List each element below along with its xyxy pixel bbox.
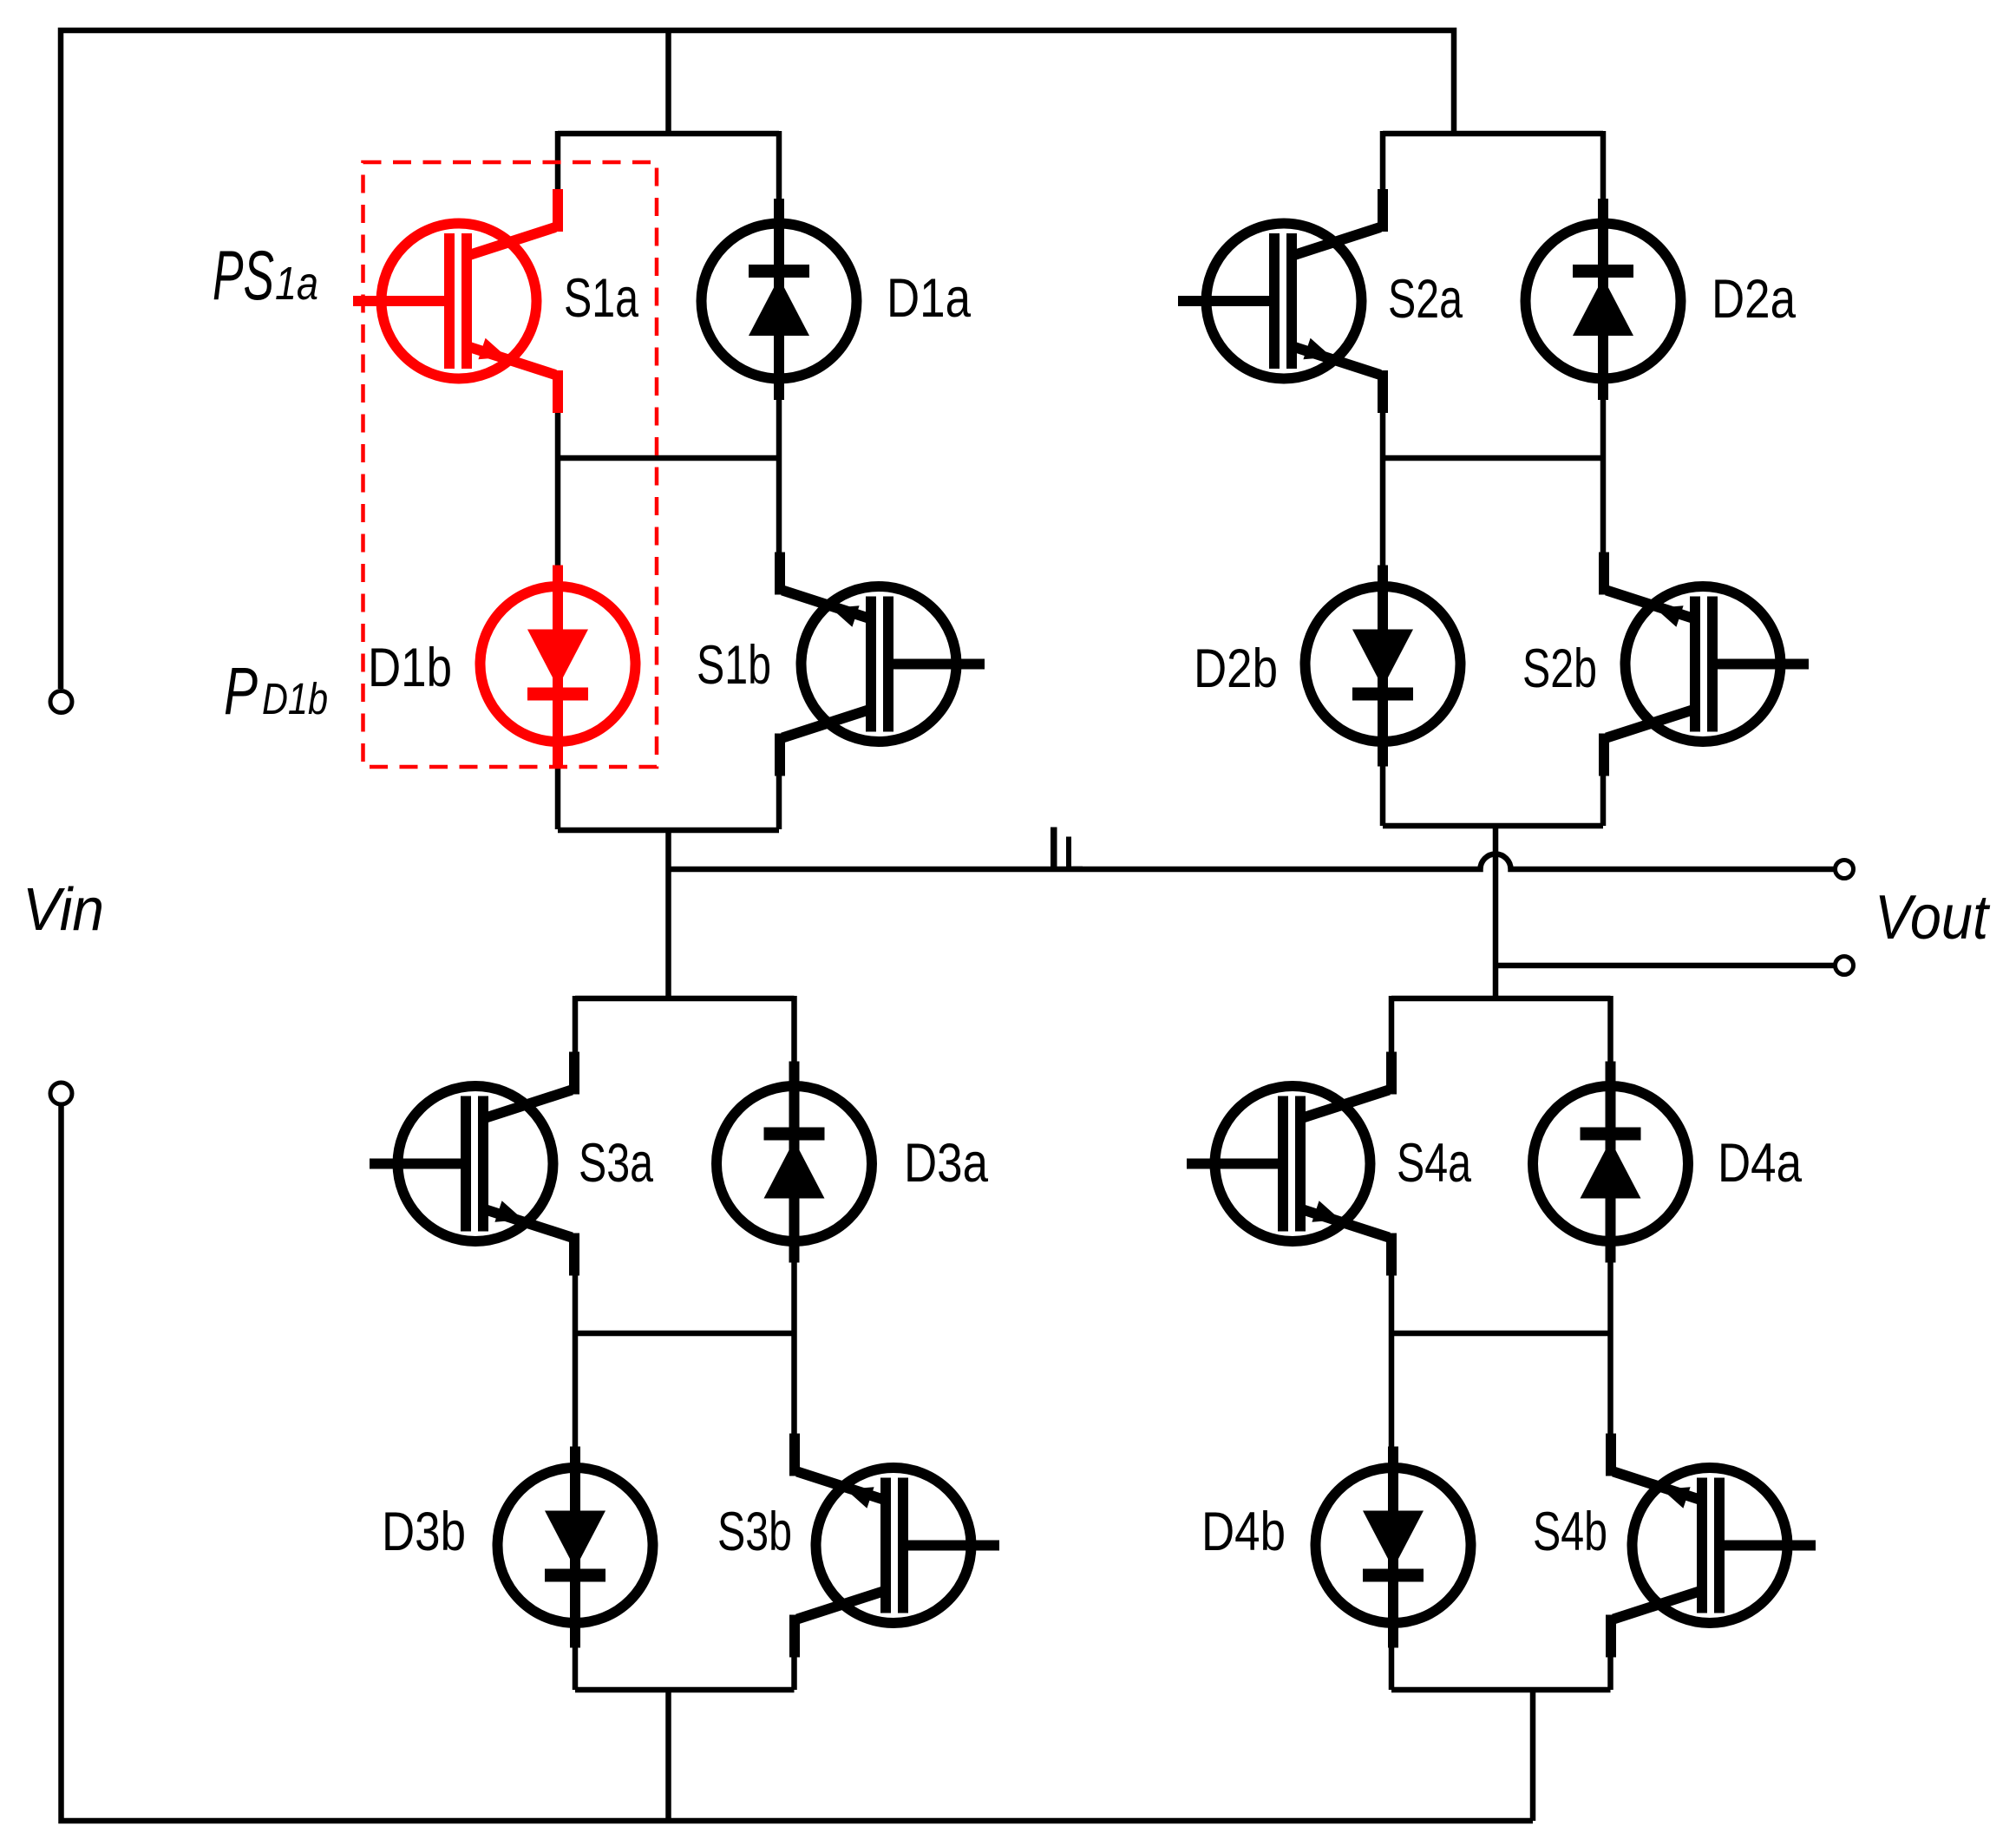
svg-text:S3a: S3a	[579, 1133, 654, 1194]
wire cell2 left branch upper segment	[1380, 131, 1386, 193]
wire cell2 right branch upper segment	[1600, 131, 1607, 555]
svg-text:S4b: S4b	[1533, 1502, 1607, 1562]
diode D3a	[717, 1062, 872, 1263]
wire cell4 bottom drop to bus	[1530, 1690, 1536, 1821]
wire cell1 right branch upper segment	[776, 131, 782, 555]
diode D4a	[1533, 1062, 1688, 1263]
svg-text:S4a: S4a	[1397, 1133, 1472, 1194]
svg-text:D3b: D3b	[382, 1502, 466, 1562]
transistor S4a (IGBT)	[1187, 1052, 1391, 1276]
node: cell 4 top edge	[1391, 996, 1611, 1002]
svg-text:D4a: D4a	[1718, 1133, 1803, 1194]
node: cell 1 middle rail	[558, 455, 779, 461]
node: cell 4 bottom edge	[1391, 1687, 1611, 1693]
diode D4b	[1316, 1447, 1471, 1648]
node: cell 2 middle rail	[1383, 455, 1603, 461]
svg-text:Vout: Vout	[1875, 883, 1991, 952]
red dashed highlight box around S1a and D1b	[363, 162, 658, 767]
terminal Vin+	[50, 691, 72, 713]
svg-text:S3b: S3b	[717, 1502, 792, 1562]
wire cell4 left branch upper segment	[1389, 996, 1395, 1055]
transistor S1a (IGBT)	[353, 189, 558, 413]
node: cell 4 middle rail	[1391, 1331, 1611, 1337]
node: cell 1 bottom edge	[558, 828, 779, 834]
svg-text:D1a: D1a	[887, 268, 972, 329]
svg-text:P: P	[224, 654, 258, 729]
terminal Vout+	[1836, 861, 1854, 879]
terminal Vin-	[50, 1083, 72, 1104]
wire phase B vertical (cell2 to cell4)	[1493, 826, 1499, 998]
wire cell1 left branch lower segment	[555, 409, 561, 829]
wire cell3 left branch upper segment	[573, 996, 579, 1055]
node: cell 2 bottom edge	[1383, 823, 1603, 829]
svg-text:Vin: Vin	[23, 875, 104, 943]
wire cell3 left branch lower segment	[573, 1272, 579, 1690]
svg-text:D2a: D2a	[1712, 269, 1797, 330]
node: cell 2 top edge	[1383, 131, 1603, 137]
svg-text:1a: 1a	[275, 258, 318, 310]
wire cell3 right branch lower segment	[791, 1654, 797, 1690]
svg-text:S2a: S2a	[1388, 269, 1463, 330]
wire phase A vertical (cell1 to cell3)	[665, 829, 671, 998]
node: cell 3 top edge	[575, 996, 795, 1002]
transistor S2b (IGBT)	[1604, 553, 1809, 776]
svg-text:S1a: S1a	[564, 268, 639, 329]
node: cell 3 middle rail	[575, 1331, 795, 1337]
transistor S4b (IGBT)	[1611, 1434, 1816, 1658]
svg-text:S2b: S2b	[1522, 638, 1597, 699]
diode D2b	[1306, 566, 1461, 767]
wire cell1 left branch upper segment	[555, 131, 561, 193]
node: cell 3 bottom edge	[575, 1687, 795, 1693]
wire output rail to Vout-	[1496, 963, 1834, 969]
svg-text:D4b: D4b	[1201, 1502, 1286, 1562]
transistor S1b (IGBT)	[780, 553, 985, 776]
wire cell1 right branch lower segment	[776, 773, 782, 829]
diode D1a	[702, 199, 857, 400]
diode D3b	[498, 1447, 653, 1648]
svg-text:D3a: D3a	[904, 1133, 989, 1194]
wire cell3 bottom drop to bus	[665, 1690, 671, 1821]
svg-text:D2b: D2b	[1194, 638, 1278, 699]
bottom bus wire (Vin- rail)	[62, 1106, 1534, 1821]
svg-text:D1b: D1b	[368, 638, 452, 698]
wire cell4 right branch lower segment	[1607, 1654, 1613, 1690]
transistor S3a (IGBT)	[370, 1052, 574, 1276]
wire cell4 right branch upper segment	[1607, 996, 1613, 1437]
node: cell 1 top edge	[558, 131, 779, 137]
svg-text:S1b: S1b	[697, 635, 771, 696]
svg-text:PS: PS	[213, 237, 274, 315]
wire cell2 left branch lower segment	[1380, 409, 1386, 826]
wire cell2 right branch lower segment	[1600, 773, 1607, 826]
wire output rail to Vout+ with hop over phase B	[669, 854, 1834, 869]
top bus wire (Vin+ rail)	[61, 30, 1454, 689]
svg-text:D1b: D1b	[262, 674, 328, 723]
terminal Vout-	[1836, 957, 1854, 975]
diode D2a	[1526, 199, 1681, 400]
transistor S3b (IGBT)	[795, 1434, 999, 1658]
wire cell1 top feed	[665, 28, 671, 134]
transistor S2a (IGBT)	[1178, 189, 1383, 413]
wire cell3 right branch upper segment	[791, 996, 797, 1437]
wire cell4 left branch lower segment	[1389, 1272, 1395, 1690]
label IL (inductor current)	[1051, 828, 1083, 871]
diode D1b	[481, 566, 636, 767]
